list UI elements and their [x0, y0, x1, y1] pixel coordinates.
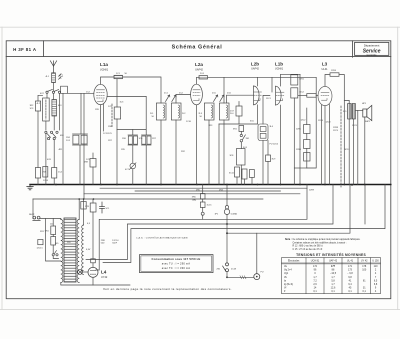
resistor 1R2 [35, 101, 40, 111]
svg-text:12C5: 12C5 [352, 125, 358, 127]
svg-text:Contrôle: Contrôle [367, 53, 378, 57]
svg-text:1C11: 1C11 [103, 133, 109, 135]
capacitor 1C4 [52, 168, 57, 179]
wire 5C2 leads [92, 212, 94, 259]
output pentode U5 L3 [318, 86, 332, 105]
consommation box [140, 255, 214, 273]
svg-text:TENSIONS ET INTENSITÉS MOYENNE: TENSIONS ET INTENSITÉS MOYENNES [296, 252, 366, 257]
svg-text:1C6: 1C6 [139, 138, 144, 140]
svg-text:1R8: 1R8 [84, 162, 89, 164]
svg-text:1C5: 1C5 [108, 133, 113, 135]
wire 3L4 top [263, 95, 270, 124]
wire speaker feed [355, 109, 362, 111]
svg-text:2C9: 2C9 [230, 111, 235, 113]
wire lamp bottom [61, 283, 130, 286]
wire 3C9 leads [267, 141, 269, 156]
wire speaker return [357, 110, 359, 184]
wire HT top [78, 199, 80, 220]
svg-text:Ig (R+S): Ig (R+S) [284, 283, 293, 286]
wire anode L2a loop [197, 77, 200, 84]
wire coil drops [53, 93, 55, 99]
wire to primary [53, 256, 58, 259]
svg-text:0: 0 [314, 272, 316, 275]
wire 3C12 lead [251, 178, 253, 185]
capacitor 3C10 [235, 167, 240, 177]
rectifier tube U6 L4 [88, 267, 98, 277]
shielded block 3L4 [258, 124, 268, 141]
wire anode to IF1 [123, 77, 161, 103]
wire 2C9 leads [238, 116, 240, 124]
svg-text:9: 9 [375, 287, 377, 290]
svg-text:H 3F 81 A: H 3F 81 A [13, 47, 37, 52]
wire 1C15 bottom [202, 208, 204, 213]
table header text [288, 259, 379, 262]
wire 2L4 to L2b grid [227, 95, 254, 103]
svg-text:HP1: HP1 [362, 103, 367, 105]
nota text [285, 238, 361, 251]
IF transformer 2L1 [150, 103, 166, 120]
svg-text:45: 45 [349, 287, 352, 290]
resistor 12R7 [304, 153, 310, 162]
svg-text:3L5: 3L5 [343, 111, 347, 113]
svg-text:173: 173 [348, 269, 353, 272]
svg-text:3C8: 3C8 [230, 155, 235, 157]
capacitor 3C9 [266, 155, 271, 162]
IF transformer 2L4 [219, 103, 229, 120]
svg-text:50: 50 [125, 73, 128, 75]
svg-text:Schéma Général: Schéma Général [172, 44, 223, 50]
measurement table [282, 258, 381, 294]
diode-pentode U3 L2b [254, 86, 262, 105]
svg-text:1C10: 1C10 [186, 121, 192, 123]
junction dots supply [78, 184, 345, 200]
wire 1C4 to bus [53, 178, 55, 185]
svg-text:12C15: 12C15 [37, 248, 44, 250]
wire CAG return A [96, 185, 307, 271]
svg-text:2L3: 2L3 [199, 113, 203, 115]
svg-text:0,1: 0,1 [331, 290, 335, 293]
transformer L4 core [64, 218, 76, 282]
wire cathode L3 [324, 106, 326, 185]
wire junction B2 [364, 185, 366, 225]
triode-heptode U1 L1a [94, 84, 107, 104]
svg-text:31: 31 [363, 287, 366, 290]
wire switch to bus [45, 133, 47, 184]
svg-text:2L2: 2L2 [182, 113, 186, 115]
volume potentiometer 1P1 [224, 206, 229, 215]
wire shield drop [218, 124, 220, 185]
svg-text:1R5: 1R5 [121, 149, 126, 151]
svg-text:1R6: 1R6 [122, 138, 127, 140]
resistor 12R3 [307, 94, 316, 98]
svg-text:1R7: 1R7 [152, 138, 157, 140]
wire anode to IF2 [208, 76, 316, 78]
wire 1R2 bottom [37, 111, 39, 168]
resistor 5R1 [51, 226, 56, 235]
svg-text:1R9: 1R9 [95, 109, 100, 111]
svg-text:If: If [284, 290, 286, 293]
wire transformer secondary [353, 119, 355, 185]
svg-text:SECT.: SECT. [29, 214, 35, 216]
svg-text:4: 4 [375, 290, 377, 293]
wire 3R5 bottom [202, 199, 204, 202]
transformer HT winding [77, 220, 79, 283]
svg-text:2C5: 2C5 [212, 93, 217, 95]
heater bus [84, 193, 300, 195]
svg-text:1MΩ: 1MΩ [192, 199, 197, 202]
svg-text:1R4: 1R4 [66, 137, 71, 139]
osc feedback loop [61, 86, 68, 93]
cable ticks [240, 276, 246, 279]
capacitor 12C15 [38, 240, 43, 245]
wire screen drop [83, 93, 85, 199]
svg-text:UL41: UL41 [322, 68, 329, 71]
svg-text:− 6,8: − 6,8 [347, 272, 353, 275]
svg-text:Ia: Ia [284, 279, 287, 282]
svg-text:3C11: 3C11 [229, 173, 235, 175]
wire anode L3 loop [325, 75, 330, 87]
svg-text:2R2: 2R2 [181, 151, 186, 153]
svg-text:UY 42: UY 42 [361, 259, 368, 262]
svg-text:2S1: 2S1 [217, 269, 222, 271]
wire cathode L1a [100, 105, 102, 185]
wire primary top [60, 219, 62, 220]
svg-text:L2a: L2a [195, 62, 203, 67]
svg-text:4C7: 4C7 [125, 169, 130, 171]
wire 11R2 down [293, 98, 295, 185]
svg-text:0,1: 0,1 [348, 290, 352, 293]
svg-text:2L1: 2L1 [150, 113, 154, 115]
capacitor 2C9 [236, 106, 242, 116]
oscillator coil 4L2 [43, 98, 50, 121]
svg-text:6,5: 6,5 [374, 279, 378, 282]
svg-text:1C3: 1C3 [30, 108, 35, 110]
svg-text:0,5MΩ: 0,5MΩ [231, 213, 238, 216]
wire 2L1 bottom [160, 120, 162, 185]
label column 1R6 [108, 126, 113, 142]
svg-text:L4: L4 [101, 270, 107, 275]
svg-text:1C4: 1C4 [58, 172, 63, 174]
svg-text:2L4: 2L4 [230, 113, 234, 115]
svg-text:1C3: 1C3 [120, 102, 125, 104]
wire 2L4 drop [223, 77, 225, 103]
svg-text:L2b: L2b [251, 62, 259, 67]
svg-text:avec TU : I = 290 mA: avec TU : I = 290 mA [162, 262, 190, 266]
wire lamp line [227, 276, 254, 278]
svg-text:1C1: 1C1 [116, 73, 121, 75]
svg-text:6,8: 6,8 [374, 283, 378, 286]
capacitor 3C12 [250, 170, 255, 178]
svg-text:2C6: 2C6 [227, 93, 232, 95]
cathode resistor 1R8 [90, 159, 96, 168]
resistor 3R5 [200, 194, 205, 200]
svg-text:3C9: 3C9 [272, 159, 277, 161]
svg-text:0,1: 0,1 [363, 290, 367, 293]
svg-text:172: 172 [313, 265, 318, 268]
svg-text:2C1: 2C1 [164, 93, 169, 95]
svg-text:3C4: 3C4 [243, 147, 248, 149]
svg-text:4L3: 4L3 [58, 105, 62, 107]
wire osc grid drop [62, 93, 64, 184]
resistor 11R2 [291, 88, 298, 98]
band switch contacts S1 [46, 89, 61, 93]
svg-text:14: 14 [314, 287, 317, 290]
capacitor 5C2 [91, 259, 96, 263]
svg-text:Vk: Vk [284, 276, 288, 279]
pentode U2 L2a [191, 84, 203, 105]
svg-text:C.A.G. : CONTRÔLE AUTOMATIQUE: C.A.G. : CONTRÔLE AUTOMATIQUE DE GAIN [136, 237, 188, 240]
svg-text:2,6: 2,6 [313, 283, 317, 286]
wire 11R2 tie [294, 167, 307, 169]
wire 1R3 to bus [37, 178, 39, 185]
svg-text:4: 4 [375, 272, 377, 275]
svg-text:1P1: 1P1 [215, 214, 220, 216]
resistor 5R2 [51, 237, 56, 246]
svg-text:3C5: 3C5 [250, 121, 255, 123]
wire 3C8 to bus [240, 165, 242, 185]
resistor 12R2 [304, 140, 310, 149]
svg-text:UL 41: UL 41 [347, 259, 354, 262]
svg-text:500: 500 [101, 242, 105, 244]
svg-text:2C18: 2C18 [231, 269, 237, 271]
wire heater taps [83, 199, 85, 225]
svg-text:−10,5: −10,5 [330, 272, 337, 275]
wire selector bottom [52, 245, 54, 254]
svg-text:PU: PU [261, 272, 264, 274]
svg-text:12,6: 12,6 [331, 287, 336, 290]
svg-text:UCH 81: UCH 81 [311, 259, 320, 262]
svg-text:R 12 : 680 Ω au lieu de 560 Ω: R 12 : 680 Ω au lieu de 560 Ω [293, 245, 324, 248]
svg-text:1,7: 1,7 [331, 283, 335, 286]
svg-text:1R7: 1R7 [108, 140, 113, 142]
svg-text:11C1: 11C1 [266, 98, 272, 100]
svg-text:4C1: 4C1 [59, 76, 64, 78]
svg-text:UCH81: UCH81 [100, 68, 109, 71]
svg-text:L1a: L1a [100, 62, 108, 67]
RC pair 1R7 1C7 [142, 96, 152, 184]
svg-text:6,8: 6,8 [348, 276, 352, 279]
wire bus drop P [202, 185, 204, 194]
wire switch drops [46, 93, 48, 98]
resistor 12R4 [330, 73, 339, 77]
volume box 3C8 [237, 149, 246, 166]
svg-text:3R5: 3R5 [192, 197, 197, 199]
wire L1b cathode [280, 105, 282, 184]
ground [27, 185, 33, 190]
consommation text [152, 257, 201, 270]
transformer primary winding [61, 220, 63, 283]
chassis ground bus [30, 184, 391, 186]
svg-text:Nota :: Nota : [285, 238, 292, 241]
svg-text:0,1: 0,1 [313, 290, 317, 293]
AVC bus [135, 190, 281, 192]
wire antenna to band switch [53, 83, 55, 91]
svg-text:2: 2 [375, 269, 377, 272]
svg-text:U 150: U 150 [372, 259, 379, 262]
wire 1R2 top [38, 95, 43, 101]
wire 4C7 to bus [132, 169, 134, 185]
feedback dashed wire [340, 106, 342, 187]
svg-text:5C1: 5C1 [106, 208, 111, 210]
wire supply drop [299, 74, 301, 184]
svg-text:6,4: 6,4 [348, 283, 352, 286]
switch contacts 3S1 [240, 134, 245, 142]
wire cathode L2a [196, 105, 198, 185]
svg-text:178: 178 [362, 265, 367, 268]
svg-text:Vf: Vf [284, 287, 287, 290]
junction ring [201, 212, 204, 215]
wire 2L3 bottom [208, 120, 210, 185]
antenna trimmer ticks [58, 74, 61, 80]
svg-text:avec TC : I = 330 mA: avec TC : I = 330 mA [162, 266, 190, 270]
gang dashed link [111, 104, 113, 127]
TITLES [13, 43, 381, 57]
heater return bus [33, 198, 263, 200]
svg-text:1C4: 1C4 [66, 140, 71, 142]
svg-text:Consommation sous 117 V/50 Hz: Consommation sous 117 V/50 Hz [152, 257, 201, 261]
capacitor 1C15 [200, 202, 205, 208]
svg-text:12C9: 12C9 [333, 130, 339, 132]
triode U4 L1b [276, 86, 285, 105]
wire 1R8 leads [92, 153, 94, 159]
junction dots bus [55, 184, 366, 186]
junction dot D [226, 232, 228, 234]
svg-text:1C14: 1C14 [43, 180, 49, 182]
svg-text:Département: Département [364, 43, 380, 47]
wire heater pin L1a [103, 104, 105, 131]
table body text [284, 265, 378, 293]
svg-text:3S1: 3S1 [246, 138, 251, 140]
wire 1C5 leads [107, 95, 146, 97]
svg-text:UAF 42: UAF 42 [329, 259, 338, 262]
resistor 5R3 [90, 203, 96, 212]
svg-text:4C8: 4C8 [47, 159, 52, 161]
svg-text:PU 12C6: PU 12C6 [270, 144, 279, 146]
svg-text:5R3: 5R3 [85, 206, 90, 208]
resistor 2R1 [199, 76, 208, 79]
svg-text:88: 88 [332, 269, 335, 272]
svg-text:L1b: L1b [275, 62, 283, 67]
wire 3R1 down [240, 132, 242, 135]
svg-text:1R2: 1R2 [30, 105, 35, 107]
wire switch feed D [227, 185, 350, 234]
IF transformer 2L2 [171, 103, 181, 120]
mains plug [33, 216, 40, 220]
wave switch contacts S2 [45, 131, 58, 140]
junction dot B [226, 223, 228, 225]
RC pair 1R4 1C4 [73, 133, 88, 135]
svg-text:12C2: 12C2 [301, 120, 307, 122]
capacitor 1C5 [114, 107, 120, 119]
wire 12R3 to L3 [316, 94, 318, 96]
svg-text:UAF42: UAF42 [195, 68, 203, 71]
svg-text:Certaines valeurs ont été modi: Certaines valeurs ont été modifiées depu… [293, 241, 347, 244]
svg-text:7: 7 [375, 276, 377, 279]
svg-text:4L2: 4L2 [37, 103, 41, 105]
svg-text:3L4: 3L4 [270, 126, 274, 128]
wire pot to switch [226, 215, 228, 263]
svg-text:50: 50 [200, 116, 203, 118]
svg-text:Ce schéma ne s'applique qu'aux: Ce schéma ne s'applique qu'aux tout prem… [293, 238, 361, 241]
wire det coupling [219, 123, 258, 125]
IF transformer 2L3 [199, 103, 215, 120]
wire L2b diode out [257, 105, 259, 124]
svg-text:Électrodes: Électrodes [288, 259, 300, 262]
capacitor 3C11 [242, 169, 247, 179]
padder trimmer 4C7 [129, 163, 136, 170]
mains switch 2S1 [223, 263, 229, 272]
resistor 11R1 [291, 75, 298, 85]
svg-text:6,3: 6,3 [87, 223, 91, 225]
wire 2L2 bottom [175, 120, 177, 185]
wire 2L2 to L2a grid [176, 95, 191, 104]
trim arrow 2C1 [166, 95, 170, 102]
trim arrow 2C5 [214, 95, 218, 102]
svg-text:4L1: 4L1 [46, 76, 50, 78]
svg-text:3C13: 3C13 [345, 149, 351, 151]
selector contacts [52, 251, 58, 256]
RC pair 1R6 1C6 [128, 130, 138, 164]
svg-text:61: 61 [363, 279, 366, 282]
svg-text:41: 41 [349, 279, 352, 282]
coupling wire row [117, 129, 146, 131]
svg-text:12R4: 12R4 [331, 70, 337, 72]
svg-text:1,7: 1,7 [313, 276, 317, 279]
wire pairA stub [80, 93, 82, 134]
wire transformer primary top [344, 100, 349, 103]
wire 12R chain [306, 108, 308, 125]
svg-text:171: 171 [348, 265, 353, 268]
transformer heater winding [82, 225, 84, 274]
svg-text:2R3: 2R3 [209, 125, 214, 127]
output transformer 3L5 [343, 104, 355, 120]
svg-text:UY42: UY42 [101, 276, 108, 279]
wire screen L3 [321, 105, 323, 184]
svg-text:5R1: 5R1 [45, 231, 50, 233]
wire anode L2b loop [257, 77, 259, 86]
wire 5R1 leads [52, 219, 54, 227]
svg-text:2C4: 2C4 [200, 73, 205, 75]
svg-text:C 15 : 27 nF au lieu de 47 nF: C 15 : 27 nF au lieu de 47 nF [293, 249, 323, 251]
svg-text:5,8: 5,8 [331, 279, 335, 282]
svg-text:3HP1: 3HP1 [365, 121, 371, 123]
wire lamp stub [92, 277, 94, 285]
svg-text:UAF42: UAF42 [251, 68, 259, 71]
svg-text:245: 245 [55, 243, 59, 245]
wire g3 L3 [329, 105, 331, 185]
svg-text:4R1: 4R1 [59, 149, 64, 151]
wire 3S1 down [240, 142, 242, 149]
svg-text:12R6: 12R6 [296, 149, 302, 151]
svg-text:12R1: 12R1 [296, 129, 302, 131]
wire 3C10 lead [236, 177, 238, 185]
svg-text:7,2: 7,2 [313, 279, 317, 282]
wire switch to junction [226, 272, 228, 278]
svg-text:UCH81: UCH81 [275, 68, 284, 71]
svg-text:12R9: 12R9 [309, 190, 315, 192]
svg-text:1C15: 1C15 [207, 205, 213, 207]
resistor 1R1 [114, 75, 123, 78]
wire jack feed [256, 233, 258, 273]
svg-text:3R1: 3R1 [233, 129, 238, 131]
svg-text:Vg 2+4: Vg 2+4 [284, 269, 292, 272]
wire mains top [40, 218, 61, 220]
svg-text:12C4: 12C4 [318, 120, 324, 122]
wire to output transformer [340, 75, 345, 185]
svg-text:100: 100 [362, 269, 367, 272]
wire ring to CAG [202, 215, 204, 219]
pilot lamp [78, 270, 88, 275]
